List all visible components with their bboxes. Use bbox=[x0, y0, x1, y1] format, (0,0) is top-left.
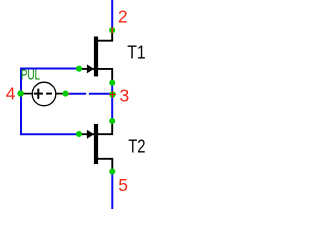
source PUL right lead bbox=[56, 93, 66, 95]
junction dot T2 arrow pin bbox=[76, 131, 82, 137]
wire node 5 vertical (T2 to bottom edge) bbox=[111, 172, 113, 210]
svg-text:T2: T2 bbox=[128, 136, 145, 156]
transistor T2 body bar bbox=[94, 124, 98, 164]
transistor T1 arrow lead (left, arrow into bar) bbox=[79, 64, 94, 73]
transistor T1 body bar bbox=[94, 37, 98, 77]
wire middle vertical (node 3) bbox=[111, 83, 113, 121]
svg-text:PUL: PUL bbox=[21, 68, 40, 84]
junction dot below T1 bbox=[109, 80, 115, 86]
svg-text:T1: T1 bbox=[127, 42, 145, 62]
source PUL left lead bbox=[21, 93, 33, 95]
svg-text:2: 2 bbox=[118, 7, 128, 27]
source plus sign bbox=[34, 89, 43, 99]
svg-text:5: 5 bbox=[118, 175, 128, 195]
transistor T1 top lead bbox=[98, 30, 113, 41]
wire dashed from source to node 3 bbox=[68, 93, 109, 95]
junction dot source right pin with red fringe bbox=[63, 91, 70, 97]
transistor T1 bottom lead bbox=[98, 69, 112, 83]
junction dot node 4 bbox=[17, 90, 23, 96]
wire left loop (top, left, bottom segments) bbox=[21, 69, 79, 135]
junction dot above T2 bbox=[109, 118, 115, 124]
transistor T2 top lead (arrow into bar) bbox=[79, 121, 112, 139]
junction dot T1 arrow pin bbox=[76, 66, 82, 72]
source minus sign bbox=[46, 93, 52, 95]
source PUL circle body bbox=[32, 82, 56, 106]
transistor T2 bottom lead bbox=[98, 159, 112, 172]
svg-text:4: 4 bbox=[6, 83, 16, 103]
junction dot T1 top pin with red tick bbox=[109, 27, 115, 33]
junction dot node 3 with red cross bbox=[109, 91, 116, 98]
svg-text:3: 3 bbox=[120, 85, 130, 105]
junction dot below T2 bbox=[109, 168, 115, 174]
wire node 2 vertical (top edge to T1) bbox=[111, 0, 113, 30]
